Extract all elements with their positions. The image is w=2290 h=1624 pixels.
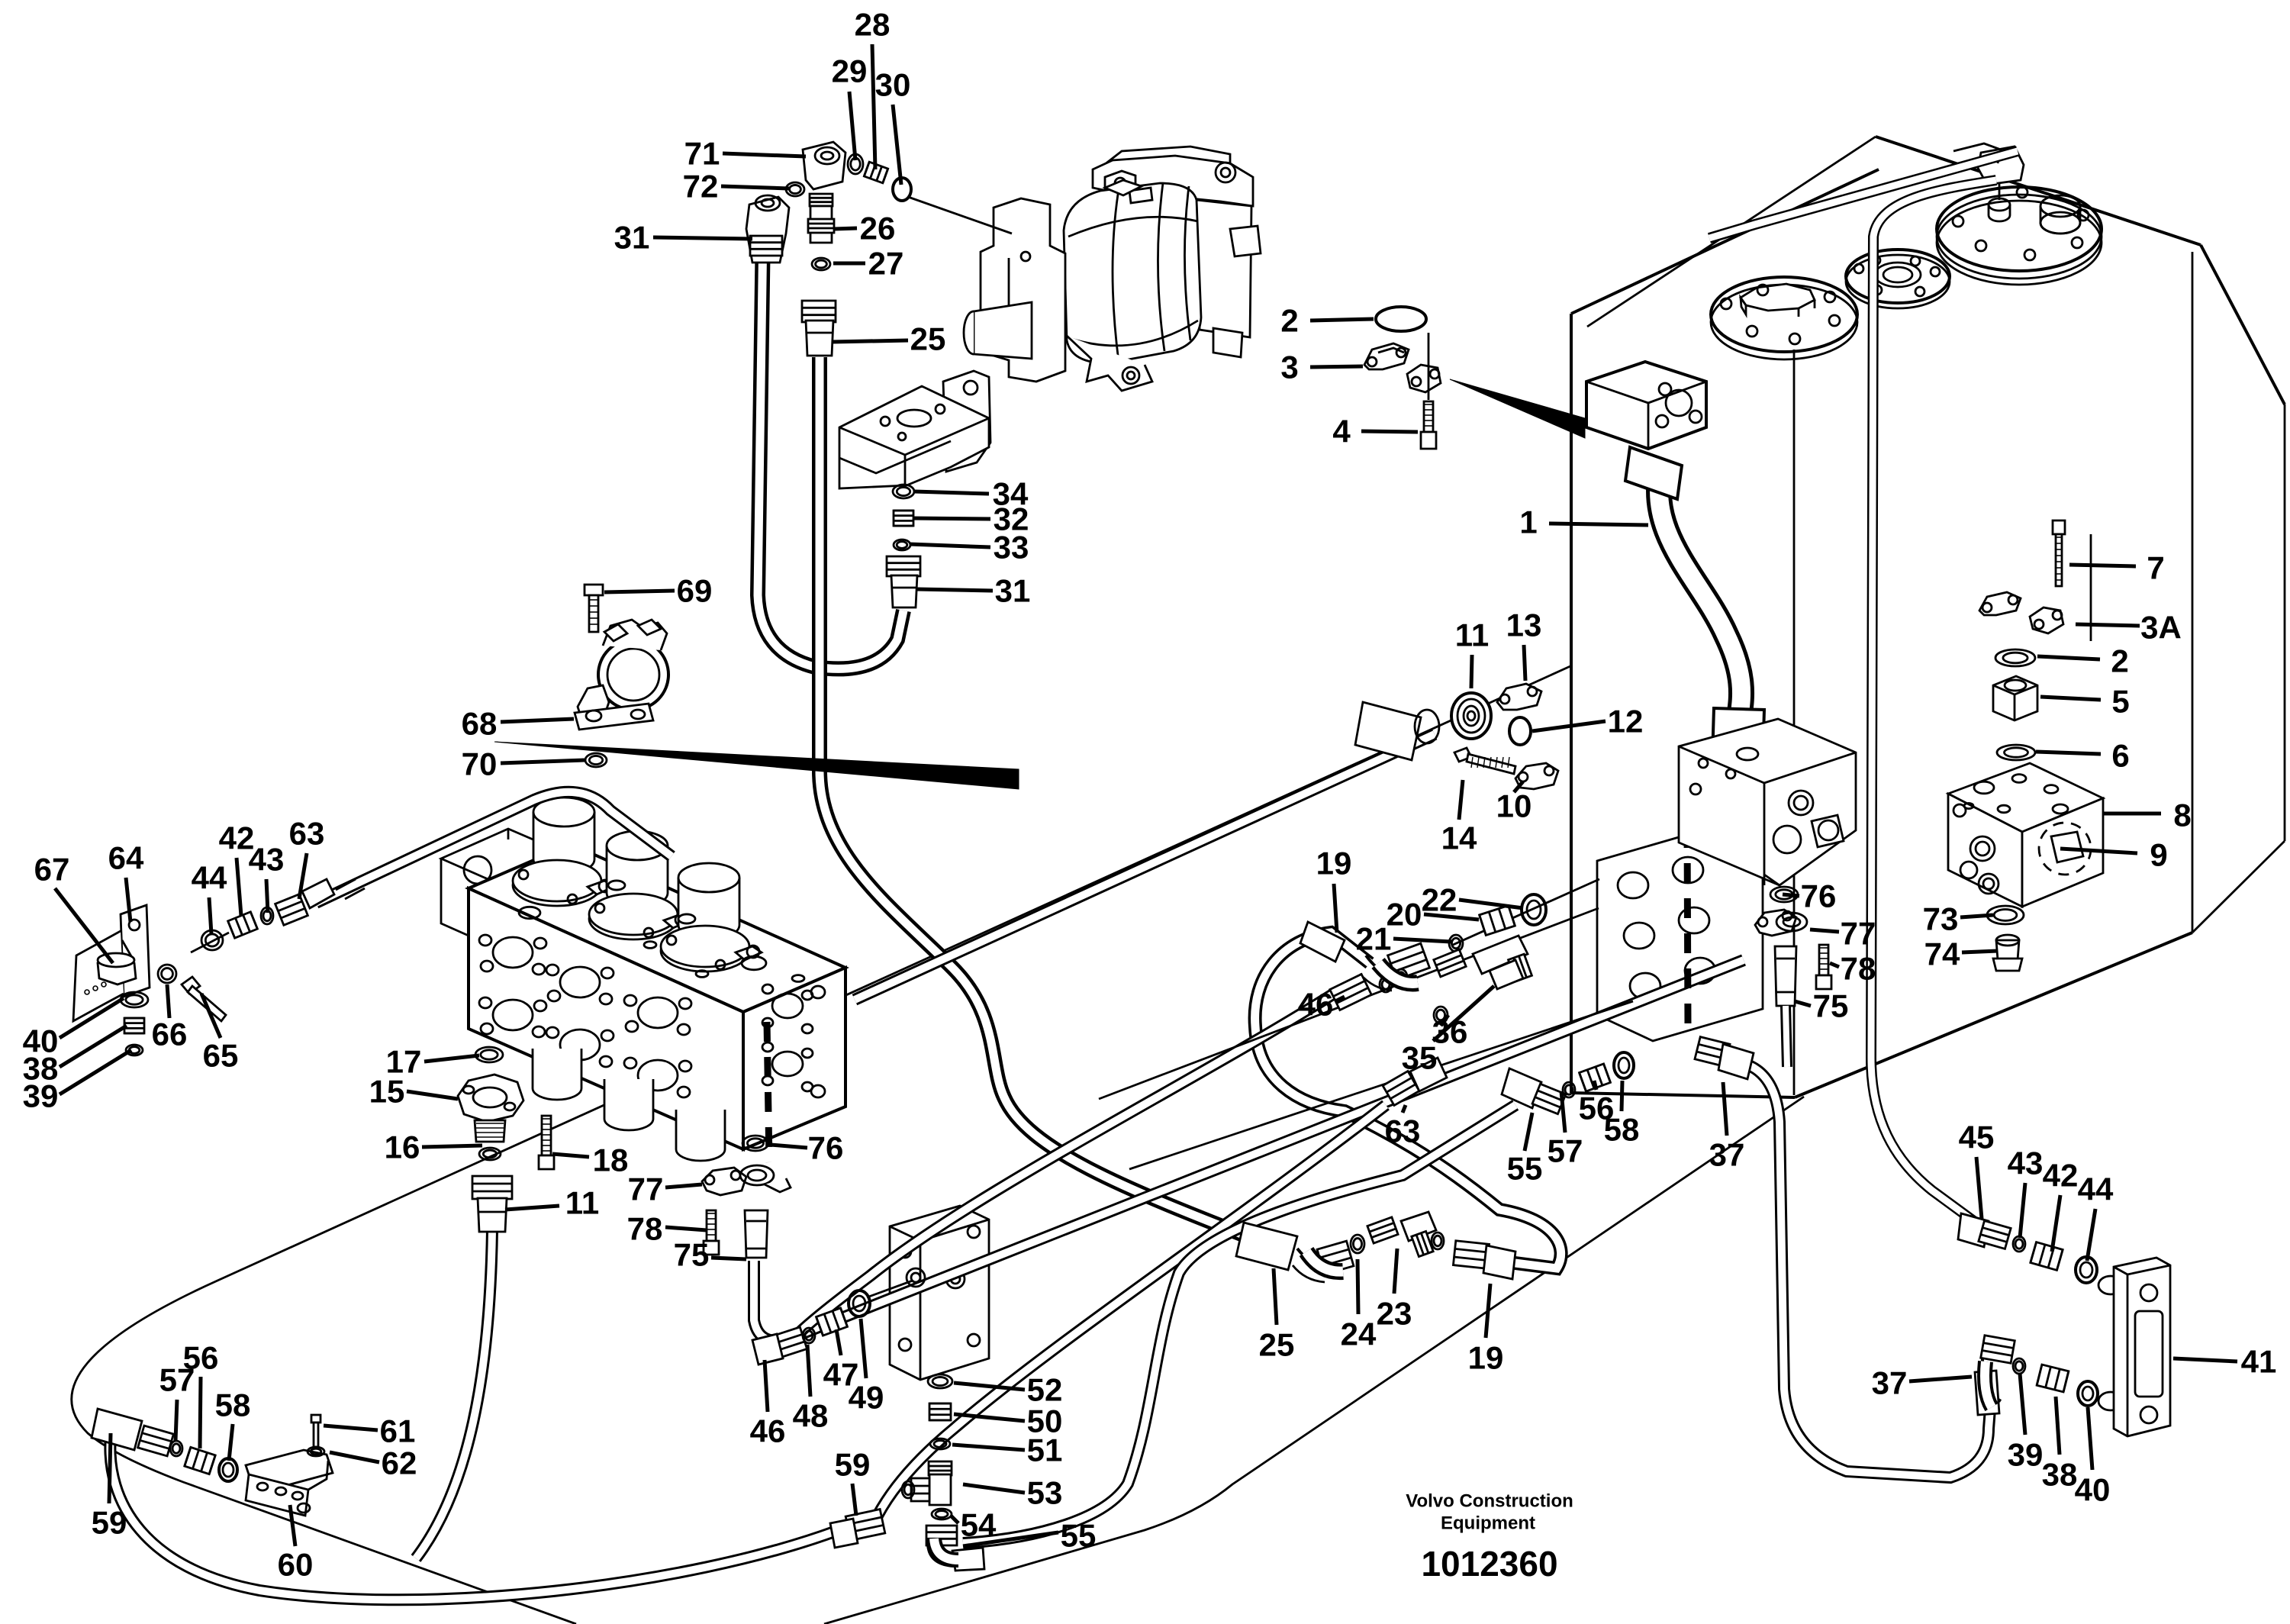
nut 59a bbox=[845, 1510, 885, 1541]
svg-text:40: 40 bbox=[23, 1023, 59, 1059]
svg-text:31: 31 bbox=[614, 220, 650, 256]
nipple 47 bbox=[816, 1308, 848, 1336]
washer 49 bbox=[849, 1290, 870, 1316]
svg-text:33: 33 bbox=[994, 530, 1029, 565]
machine frame outline bbox=[72, 665, 1572, 1624]
svg-text:5: 5 bbox=[2111, 684, 2129, 720]
svg-text:29: 29 bbox=[832, 53, 868, 89]
svg-text:44: 44 bbox=[2078, 1171, 2114, 1207]
svg-text:3: 3 bbox=[1280, 350, 1298, 385]
nut 46b bbox=[768, 1327, 807, 1359]
elbow 31 top-left bbox=[746, 197, 789, 263]
valve block V1 bbox=[1679, 719, 1856, 885]
svg-text:10: 10 bbox=[1496, 788, 1532, 824]
svg-text:Volvo Construction: Volvo Construction bbox=[1406, 1491, 1573, 1512]
svg-text:11: 11 bbox=[565, 1185, 599, 1221]
hose end collar (19 top) bbox=[1355, 702, 1421, 760]
o-ring 12 bbox=[1509, 717, 1531, 745]
cube 5 bbox=[1993, 676, 2037, 720]
nipple 32 bbox=[894, 511, 913, 526]
svg-text:17: 17 bbox=[386, 1044, 422, 1080]
svg-text:42: 42 bbox=[2043, 1158, 2079, 1194]
hose 1 (thick) bbox=[1659, 467, 1741, 733]
svg-text:58: 58 bbox=[1604, 1112, 1640, 1148]
svg-text:46: 46 bbox=[750, 1413, 786, 1449]
svg-text:51: 51 bbox=[1027, 1432, 1063, 1468]
collar 75 left bbox=[740, 1165, 774, 1185]
svg-text:72: 72 bbox=[683, 169, 719, 205]
svg-text:25: 25 bbox=[1259, 1327, 1295, 1363]
main valve block bbox=[441, 797, 845, 1161]
o-ring 57a bbox=[1563, 1082, 1575, 1097]
plug 67 bbox=[98, 957, 136, 984]
svg-text:70: 70 bbox=[462, 746, 498, 782]
svg-text:41: 41 bbox=[2241, 1344, 2277, 1380]
svg-text:59: 59 bbox=[835, 1447, 871, 1483]
tee 35 bbox=[1434, 949, 1466, 977]
nipple 50 bbox=[929, 1403, 951, 1420]
bearing rings 11 bbox=[1451, 693, 1491, 739]
washer 40 bbox=[121, 992, 148, 1007]
nipple 56b bbox=[185, 1447, 215, 1474]
o-ring 36 bbox=[1434, 1007, 1448, 1023]
svg-text:53: 53 bbox=[1027, 1475, 1063, 1511]
hose 25 from pump tee down to elbow 25 bbox=[820, 357, 1263, 1242]
clamp 3 halves bbox=[1364, 343, 1409, 369]
svg-text:28: 28 bbox=[855, 7, 891, 43]
o-ring 76b bbox=[1770, 887, 1798, 902]
svg-text:68: 68 bbox=[462, 706, 498, 742]
tank left cover bbox=[1711, 277, 1857, 352]
elbow 37b bbox=[1981, 1336, 2015, 1363]
svg-text:58: 58 bbox=[215, 1387, 251, 1423]
svg-text:3A: 3A bbox=[2140, 610, 2182, 646]
svg-text:62: 62 bbox=[382, 1445, 417, 1481]
clamp 77b bbox=[1755, 910, 1796, 936]
elbow bodies bbox=[1378, 963, 1418, 983]
washer 58a bbox=[1614, 1052, 1634, 1078]
svg-text:21: 21 bbox=[1356, 921, 1392, 957]
svg-text:14: 14 bbox=[1441, 820, 1477, 856]
screw 4 bbox=[1428, 333, 1430, 400]
elbow 25b bbox=[1297, 1249, 1338, 1270]
svg-text:20: 20 bbox=[1387, 897, 1422, 933]
fitting 25 top bbox=[802, 301, 836, 322]
washer 66 bbox=[158, 965, 176, 983]
o-ring left of 53 bbox=[902, 1481, 914, 1498]
o-ring 17 bbox=[475, 1047, 503, 1062]
o-ring 16 bbox=[479, 1148, 501, 1160]
svg-text:31: 31 bbox=[995, 573, 1031, 609]
svg-text:65: 65 bbox=[203, 1038, 239, 1074]
svg-text:2: 2 bbox=[2111, 643, 2128, 679]
svg-text:16: 16 bbox=[385, 1129, 420, 1165]
o-ring 24 bbox=[1351, 1235, 1364, 1253]
clamp 13 bbox=[1497, 684, 1541, 710]
hose 55 loop bbox=[963, 1105, 1515, 1543]
washer 22 bbox=[1522, 894, 1546, 925]
o-rings before tee bbox=[1380, 977, 1392, 992]
svg-text:69: 69 bbox=[677, 573, 713, 609]
svg-text:54: 54 bbox=[961, 1507, 997, 1543]
hose end 55a bbox=[1502, 1068, 1541, 1108]
svg-text:4: 4 bbox=[1332, 414, 1351, 449]
leader lines bbox=[1549, 524, 1648, 525]
thin axis lines to manifold plate bbox=[1099, 908, 1599, 1099]
hose end 19a bbox=[1300, 922, 1345, 962]
elbow 55b bbox=[926, 1526, 957, 1545]
tee 26 bbox=[810, 194, 833, 206]
o-ring 54 bbox=[932, 1509, 952, 1519]
svg-text:67: 67 bbox=[34, 852, 70, 888]
svg-text:77: 77 bbox=[1841, 916, 1876, 952]
svg-text:13: 13 bbox=[1506, 607, 1542, 643]
svg-text:Equipment: Equipment bbox=[1441, 1513, 1535, 1534]
svg-text:37: 37 bbox=[1872, 1365, 1908, 1401]
black arrow to tank block bbox=[1450, 379, 1585, 438]
o-ring 48 bbox=[803, 1328, 815, 1343]
dashed hidden line near tank bbox=[1687, 828, 1688, 1026]
screw 78b bbox=[1819, 945, 1828, 975]
aux block below pump bbox=[839, 371, 990, 488]
svg-text:44: 44 bbox=[192, 860, 227, 896]
flange 15 bbox=[458, 1075, 523, 1122]
svg-text:36: 36 bbox=[1432, 1014, 1468, 1050]
hose end 25b bbox=[1236, 1223, 1297, 1270]
tank right cover bbox=[1937, 187, 2102, 271]
svg-text:11: 11 bbox=[1455, 617, 1489, 653]
svg-text:61: 61 bbox=[380, 1413, 416, 1449]
hose 19 from elbow 21 loop to fitting 19 bbox=[1255, 933, 1561, 1268]
o-ring 57b bbox=[170, 1441, 182, 1456]
o-ring 43 bbox=[261, 907, 273, 924]
tee 23 bbox=[1367, 1217, 1398, 1243]
o-ring 21 bbox=[1449, 935, 1463, 952]
washer 62 bbox=[308, 1447, 324, 1456]
fitting 63 lower bbox=[1383, 1071, 1419, 1106]
hose 1 collars bbox=[1625, 447, 1682, 499]
hose 11 lower stub bbox=[416, 1230, 492, 1558]
screw 69 bbox=[585, 585, 603, 595]
svg-text:19: 19 bbox=[1316, 846, 1352, 881]
svg-text:45: 45 bbox=[1959, 1120, 1995, 1155]
hose 31 left loop bbox=[758, 229, 903, 669]
hose 63 upper (to valve block) bbox=[316, 792, 672, 903]
washer 44 bbox=[201, 930, 223, 950]
svg-text:55: 55 bbox=[1507, 1151, 1543, 1187]
o-ring 52 bbox=[928, 1374, 952, 1388]
bracket 60 bbox=[246, 1450, 333, 1488]
nipple 42 bbox=[228, 912, 258, 938]
sight glass 41 bbox=[2098, 1258, 2170, 1436]
o-ring 76 left bbox=[742, 1136, 768, 1151]
svg-text:66: 66 bbox=[152, 1017, 188, 1052]
svg-text:9: 9 bbox=[2150, 837, 2167, 873]
hose pair along tank top edge bbox=[1709, 151, 2018, 238]
o-ring 2 bbox=[1376, 307, 1426, 331]
svg-text:24: 24 bbox=[1341, 1316, 1377, 1352]
washer 70 bbox=[585, 753, 607, 767]
svg-text:55: 55 bbox=[1061, 1518, 1097, 1554]
pipe flange block (hose 1) bbox=[1586, 362, 1706, 449]
svg-text:76: 76 bbox=[1801, 878, 1837, 914]
svg-text:78: 78 bbox=[627, 1211, 663, 1247]
svg-text:7: 7 bbox=[2147, 550, 2164, 586]
svg-text:39: 39 bbox=[2008, 1437, 2044, 1473]
svg-text:46: 46 bbox=[1298, 987, 1334, 1023]
svg-text:77: 77 bbox=[628, 1171, 664, 1207]
black arrow to bracket 68 bbox=[494, 742, 1019, 789]
svg-text:76: 76 bbox=[808, 1130, 844, 1166]
tank middle flange bbox=[1846, 250, 1950, 303]
svg-text:60: 60 bbox=[278, 1547, 314, 1583]
hose 75 stub and run to tank plate bbox=[754, 960, 1744, 1341]
svg-text:34: 34 bbox=[993, 476, 1029, 512]
screw 7 bbox=[2053, 520, 2065, 534]
leader from 30 to pump bbox=[908, 197, 1012, 234]
tee 53 bbox=[929, 1461, 952, 1475]
bracket 64 bbox=[121, 905, 150, 997]
o-ring 39b bbox=[2013, 1358, 2025, 1374]
svg-text:1: 1 bbox=[1519, 504, 1537, 540]
hose 59 big bottom loop bbox=[110, 1436, 836, 1600]
o-ring 27 bbox=[812, 258, 830, 270]
nut 45 bbox=[1958, 1213, 1989, 1247]
o-ring 29 bbox=[848, 154, 863, 174]
svg-text:8: 8 bbox=[2173, 797, 2191, 833]
nipple 20 bbox=[1480, 906, 1515, 936]
svg-text:75: 75 bbox=[674, 1237, 710, 1273]
svg-text:18: 18 bbox=[593, 1142, 629, 1178]
clamp 10 bbox=[1515, 763, 1558, 789]
svg-text:63: 63 bbox=[289, 816, 325, 852]
svg-text:27: 27 bbox=[868, 246, 904, 282]
o-ring 6 bbox=[1997, 745, 2035, 760]
nut 19b bbox=[1453, 1241, 1489, 1268]
svg-text:37: 37 bbox=[1709, 1137, 1745, 1173]
svg-text:30: 30 bbox=[875, 67, 911, 103]
svg-text:78: 78 bbox=[1841, 951, 1876, 987]
washer 40b bbox=[2078, 1381, 2098, 1406]
svg-text:12: 12 bbox=[1608, 704, 1644, 739]
hose end 59b bbox=[92, 1409, 142, 1450]
valve block 8 bbox=[1948, 763, 2103, 907]
svg-text:57: 57 bbox=[159, 1362, 195, 1398]
clamp 3A halves bbox=[1979, 592, 2021, 615]
svg-text:71: 71 bbox=[684, 136, 720, 172]
nut 46a bbox=[1330, 974, 1371, 1010]
o-ring 51 bbox=[930, 1439, 950, 1449]
collar 75b bbox=[1776, 913, 1807, 931]
hose 63 lower run bbox=[878, 1105, 1386, 1516]
nipple 42b bbox=[2031, 1242, 2063, 1271]
svg-text:59: 59 bbox=[92, 1505, 127, 1541]
svg-text:22: 22 bbox=[1422, 882, 1457, 918]
o-ring 72 bbox=[786, 182, 804, 196]
svg-text:1012360: 1012360 bbox=[1421, 1544, 1557, 1584]
screw 78 left bbox=[707, 1210, 716, 1241]
hydraulic tank assembly bbox=[1571, 137, 2285, 1097]
nipple 28 bbox=[864, 162, 887, 183]
svg-text:38: 38 bbox=[2042, 1457, 2078, 1493]
washer 44b bbox=[2076, 1257, 2097, 1283]
elbow fitting on tank top bbox=[1978, 147, 2024, 185]
svg-text:64: 64 bbox=[108, 840, 144, 876]
svg-text:40: 40 bbox=[2075, 1472, 2111, 1508]
o-ring right of tee bbox=[1432, 1232, 1444, 1249]
svg-text:39: 39 bbox=[23, 1078, 59, 1114]
washer 73 bbox=[1987, 906, 2024, 924]
svg-text:2: 2 bbox=[1280, 303, 1298, 339]
o-ring 43b bbox=[2013, 1236, 2025, 1252]
svg-text:73: 73 bbox=[1923, 901, 1959, 937]
plug 74 bbox=[1996, 940, 2019, 960]
o-ring 39 bbox=[126, 1045, 143, 1055]
fitting 63 top-left bbox=[275, 894, 308, 926]
svg-text:74: 74 bbox=[1924, 936, 1960, 972]
fitting 37 mid bbox=[1695, 1037, 1730, 1067]
svg-text:48: 48 bbox=[793, 1398, 829, 1434]
o-ring 2 right bbox=[1995, 649, 2035, 666]
elbow 21 nut bbox=[1388, 943, 1430, 980]
clamp 77 left bbox=[702, 1168, 746, 1195]
fitting 75 body bbox=[745, 1210, 768, 1258]
svg-text:19: 19 bbox=[1468, 1340, 1504, 1376]
o-ring 33 bbox=[894, 540, 910, 550]
hose 45 over tank bbox=[1871, 180, 1996, 1224]
svg-text:23: 23 bbox=[1377, 1296, 1412, 1332]
screw 65 bbox=[182, 977, 200, 994]
screw 61 bbox=[311, 1415, 320, 1423]
svg-text:43: 43 bbox=[2008, 1145, 2044, 1181]
svg-text:25: 25 bbox=[910, 321, 946, 357]
o-ring 34 bbox=[893, 485, 914, 498]
svg-text:49: 49 bbox=[849, 1380, 884, 1416]
svg-text:63: 63 bbox=[1385, 1113, 1421, 1149]
screw 18 bbox=[542, 1116, 551, 1155]
hose 37 run down tank front bbox=[1749, 1065, 1990, 1477]
svg-text:57: 57 bbox=[1548, 1133, 1583, 1169]
nipple 56a bbox=[1580, 1064, 1611, 1091]
hose 46 run bbox=[795, 994, 1334, 1337]
dashed hidden line below valve block bbox=[767, 1022, 769, 1162]
svg-text:6: 6 bbox=[2111, 738, 2129, 774]
bolt 14 bbox=[1454, 748, 1471, 762]
elbow 71 bbox=[803, 142, 845, 189]
svg-text:26: 26 bbox=[860, 211, 896, 246]
manifold plate with six holes bbox=[1597, 829, 1763, 1041]
svg-text:75: 75 bbox=[1813, 988, 1849, 1024]
svg-text:43: 43 bbox=[249, 842, 285, 878]
nipple 38b bbox=[2037, 1365, 2069, 1392]
hose 11 from bearing fitting to valve block bbox=[855, 734, 1435, 1000]
fitting 11 bottom bbox=[472, 1176, 512, 1199]
clamp bracket 68 bbox=[598, 640, 668, 710]
svg-text:52: 52 bbox=[1027, 1372, 1063, 1408]
o-ring 30 bbox=[893, 178, 911, 201]
hydraulic pump bbox=[964, 147, 1261, 391]
washer 58b bbox=[219, 1458, 237, 1481]
fitting 75b body bbox=[1775, 946, 1796, 1006]
nipple 38 bbox=[124, 1018, 144, 1033]
fitting 31 right bbox=[887, 556, 920, 576]
pressure valve block bbox=[890, 1206, 989, 1380]
